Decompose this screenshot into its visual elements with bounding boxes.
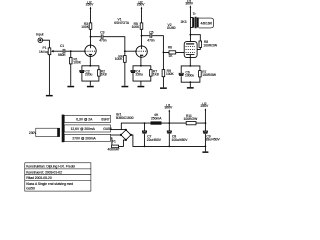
svg-text:Konstruktion: Dipl.ing H.R. Fr: Konstruktion: Dipl.ing H.R. Fredel bbox=[26, 165, 75, 169]
svg-text:100K: 100K bbox=[166, 72, 175, 76]
svg-text:1M log: 1M log bbox=[39, 50, 49, 54]
svg-text:470n: 470n bbox=[99, 39, 107, 43]
tube V1 label bbox=[114, 18, 130, 25]
svg-text:F1: F1 bbox=[112, 140, 116, 144]
svg-text:33u/450V: 33u/450V bbox=[206, 138, 221, 142]
stage2 cathode network frame bbox=[133, 66, 151, 86]
capacitor C6 bbox=[179, 70, 194, 77]
fuse F1 bbox=[108, 140, 120, 152]
triode V1b bbox=[136, 46, 147, 66]
choke L1 4H 250mA bbox=[151, 113, 163, 125]
svg-text:Konstrueret: 2003-01-02: Konstrueret: 2003-01-02 bbox=[26, 170, 62, 174]
svg-text:470n: 470n bbox=[147, 39, 155, 43]
wire P1 bottom to ground bbox=[48, 55, 50, 95]
capacitor C7 bbox=[142, 123, 161, 146]
node (cathode2) bbox=[140, 65, 142, 67]
svg-text:100u/450V: 100u/450V bbox=[172, 138, 189, 142]
GU50 cathode network frame bbox=[181, 66, 200, 87]
wire anode node to R8 bbox=[190, 35, 200, 41]
ground (R9) bbox=[160, 87, 167, 89]
resistor R11 bbox=[184, 114, 199, 125]
svg-text:C1: C1 bbox=[60, 44, 64, 48]
supply U2 250V (stage 2) bbox=[137, 0, 146, 23]
node (C8/U1 top) bbox=[168, 122, 170, 124]
wire wiper to C1 bbox=[53, 50, 62, 52]
capacitor C8 bbox=[167, 123, 188, 146]
svg-text:100K: 100K bbox=[81, 25, 90, 29]
resistor R9 bbox=[162, 52, 174, 87]
ground (GU50 cathode) bbox=[187, 87, 194, 89]
wire Tr bottom to anode node bbox=[189, 27, 191, 34]
node (anode1/C3) bbox=[90, 36, 92, 38]
svg-text:1K8: 1K8 bbox=[101, 73, 107, 77]
wire R3 to V1a anode bbox=[90, 29, 92, 45]
capacitor C5 bbox=[147, 30, 155, 42]
svg-text:1K8: 1K8 bbox=[153, 73, 159, 77]
svg-text:Input: Input bbox=[36, 33, 43, 37]
wire C1 to V1a grid bbox=[65, 50, 85, 52]
supply U2 250V (PSU) bbox=[201, 102, 210, 123]
svg-text:300V: 300V bbox=[185, 2, 194, 6]
svg-text:GU50: GU50 bbox=[26, 187, 35, 191]
capacitor C1 bbox=[58, 44, 66, 57]
resistor R1 bbox=[69, 51, 81, 86]
speaker terminals 4/8/16R bbox=[199, 18, 214, 28]
svg-text:100K: 100K bbox=[132, 25, 141, 29]
node (grid2) bbox=[124, 50, 126, 52]
wire anode2 to C5 bbox=[142, 35, 150, 37]
stage1 cathode network frame bbox=[82, 66, 99, 86]
svg-text:1000u: 1000u bbox=[185, 74, 194, 78]
bridge rectifier Br1 bbox=[116, 113, 134, 141]
node (anode2/C5) bbox=[141, 35, 143, 37]
tube V2 label bbox=[167, 23, 176, 30]
svg-text:150R/5W: 150R/5W bbox=[202, 73, 217, 77]
secondary winding 6,3V bbox=[64, 115, 110, 122]
svg-text:300V: 300V bbox=[164, 106, 173, 110]
wire bridge minus to ground rail bbox=[131, 135, 206, 147]
node (C7 bottom) bbox=[144, 146, 146, 148]
ground (R4) bbox=[122, 86, 129, 88]
node (G1 network) bbox=[163, 52, 165, 54]
wire node to V1b grid bbox=[125, 50, 136, 52]
capacitor C9 bbox=[203, 123, 220, 151]
svg-text:400mAT: 400mAT bbox=[108, 148, 120, 152]
svg-text:4/8/16R: 4/8/16R bbox=[201, 21, 213, 25]
svg-text:6SN7GTA: 6SN7GTA bbox=[114, 21, 130, 25]
node (C1/R1/grid) bbox=[70, 50, 72, 52]
wire fuse branch from 270V box bbox=[111, 138, 126, 147]
svg-text:560n: 560n bbox=[58, 53, 66, 57]
node (cathode network bottom) bbox=[189, 81, 191, 83]
resistor R5 bbox=[132, 22, 143, 29]
supply U2 250V (stage 1) bbox=[86, 0, 95, 23]
ground (stage2 cathode) bbox=[138, 86, 145, 88]
capacitor C4 bbox=[131, 69, 143, 76]
mains transformer T1 primary bbox=[29, 128, 60, 136]
node (C9/U2 top) bbox=[205, 122, 207, 124]
node (C7 top) bbox=[144, 122, 146, 124]
node (ground rail end) bbox=[205, 146, 207, 148]
svg-text:GU50: GU50 bbox=[167, 26, 176, 30]
svg-text:Klass A Single end slutsteg me: Klass A Single end slutsteg med bbox=[26, 182, 73, 186]
transformer Tr bbox=[181, 12, 199, 28]
svg-text:B380C1500: B380C1500 bbox=[116, 116, 134, 120]
svg-text:220u: 220u bbox=[85, 73, 93, 77]
wire R5 to V1b anode bbox=[141, 29, 143, 46]
svg-text:250mA: 250mA bbox=[151, 116, 162, 120]
svg-text:220u: 220u bbox=[136, 73, 144, 77]
supply U1 300V (PSU) bbox=[164, 103, 173, 123]
svg-text:100R/2W: 100R/2W bbox=[184, 117, 199, 121]
svg-text:12,6V @ 200mA: 12,6V @ 200mA bbox=[71, 127, 96, 131]
wire DC+ riser to rail bbox=[121, 123, 205, 130]
svg-text:100K: 100K bbox=[115, 57, 124, 61]
svg-text:6,3V @ 2A: 6,3V @ 2A bbox=[76, 117, 93, 121]
svg-text:100K: 100K bbox=[73, 61, 82, 65]
svg-text:250V: 250V bbox=[86, 3, 95, 7]
svg-text:Ritad 2003-05-20: Ritad 2003-05-20 bbox=[26, 176, 52, 180]
svg-text:R6: R6 bbox=[168, 46, 172, 50]
svg-text:100R/2W: 100R/2W bbox=[203, 43, 218, 47]
supply U1 300V (output) bbox=[185, 0, 194, 18]
wire node to C3 bbox=[91, 36, 101, 38]
svg-text:250V: 250V bbox=[137, 3, 146, 7]
wire 270V to bridge AC (top) bbox=[111, 134, 121, 136]
svg-text:270V @ 200mA: 270V @ 200mA bbox=[72, 136, 96, 140]
node (GU50 cathode) bbox=[189, 65, 191, 67]
svg-text:250V: 250V bbox=[201, 104, 210, 108]
wire C3 to R4/grid2 corner bbox=[103, 37, 124, 52]
resistor R2 bbox=[98, 69, 107, 76]
resistor R3 bbox=[81, 22, 92, 29]
ground (P1) bbox=[46, 95, 53, 97]
wire input to P1 top bbox=[42, 40, 49, 48]
ground (R1) bbox=[67, 86, 74, 88]
capacitor C2 bbox=[80, 69, 93, 76]
title block bbox=[25, 163, 91, 191]
node (cathode1) bbox=[89, 65, 91, 67]
ground (stage1 cathode) bbox=[87, 86, 94, 88]
transformer core bbox=[62, 115, 65, 143]
ground (PSU) bbox=[202, 151, 208, 153]
capacitor C3 bbox=[99, 31, 107, 43]
pentode V2 bbox=[184, 42, 197, 66]
input connector J bbox=[36, 33, 43, 43]
node (GU50 anode) bbox=[190, 34, 192, 36]
secondary winding 12,6V bbox=[64, 125, 112, 132]
wire anode node down to tube bbox=[189, 35, 191, 42]
secondary winding 270V bbox=[64, 134, 110, 141]
svg-text:C3: C3 bbox=[100, 31, 104, 35]
resistor R7b (cathode GU50) bbox=[199, 70, 217, 77]
resistor R4 bbox=[115, 51, 126, 86]
wire 270V top corner to bridge top feed bbox=[111, 129, 126, 131]
node (C8 bottom) bbox=[168, 146, 170, 148]
potentiometer P1 bbox=[39, 46, 54, 55]
resistor R6 bbox=[163, 46, 184, 59]
svg-text:22u/450V: 22u/450V bbox=[147, 138, 162, 142]
triode V1a bbox=[85, 45, 96, 66]
wire C5 to grid network corner bbox=[152, 36, 163, 53]
resistor R8 bbox=[197, 40, 218, 49]
svg-text:GU50: GU50 bbox=[103, 127, 112, 131]
resistor R7 bbox=[150, 69, 159, 76]
svg-text:6SN7: 6SN7 bbox=[101, 117, 109, 121]
svg-text:2K3: 2K3 bbox=[181, 20, 187, 24]
